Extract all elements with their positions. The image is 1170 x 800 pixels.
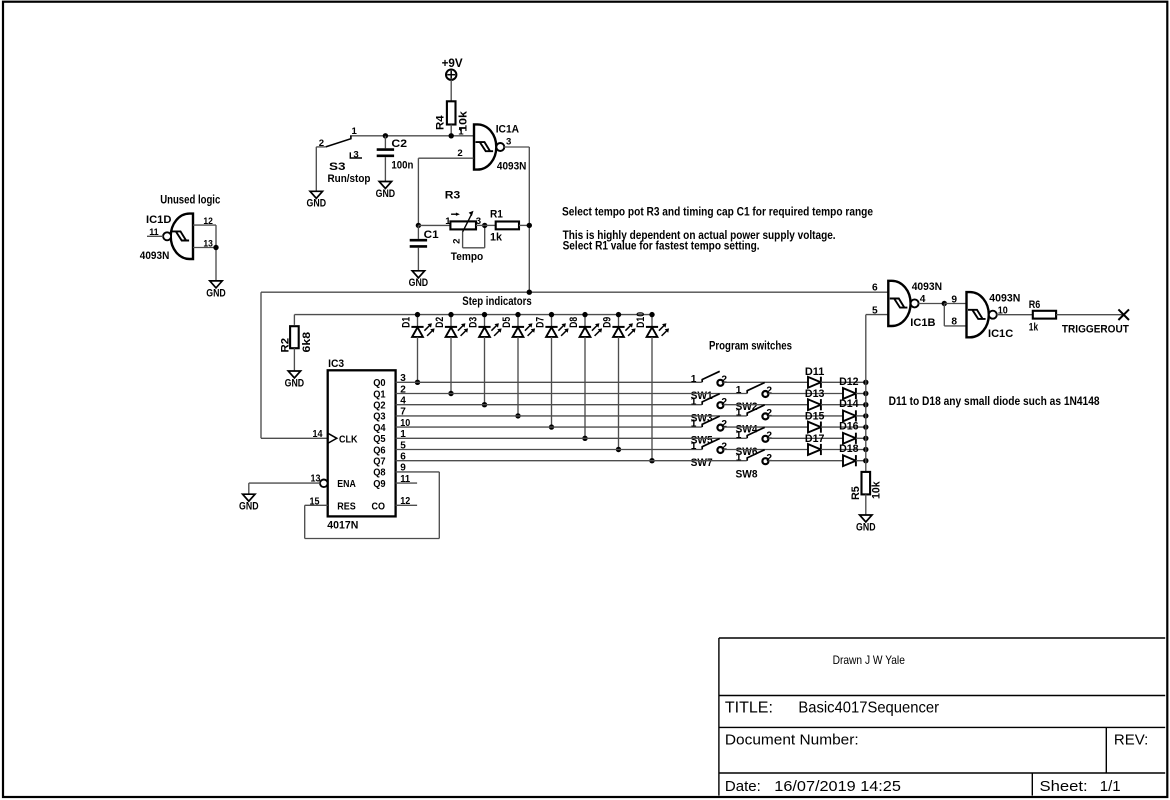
node junction R4/main: [449, 133, 454, 138]
LED D9: [618, 315, 620, 327]
diode D13: [808, 399, 821, 410]
svg-text:D18: D18: [839, 443, 859, 455]
wire: [418, 224, 450, 226]
wire IC1A pin2: [418, 157, 473, 159]
wire Q0 row: [396, 381, 702, 383]
svg-text:IC1D: IC1D: [146, 214, 171, 226]
switch SW3: [702, 394, 720, 405]
svg-text:D3: D3: [468, 317, 480, 328]
svg-text:SW7: SW7: [691, 457, 713, 469]
svg-text:Select R1 value for fastest te: Select R1 value for fastest tempo settin…: [563, 239, 760, 253]
pin ENA bubble: [320, 480, 328, 488]
ground: [412, 271, 424, 278]
wire Q3 row: [396, 415, 747, 417]
svg-text:3: 3: [506, 137, 511, 148]
svg-text:Q1: Q1: [373, 388, 386, 400]
wire Q4 row: [396, 426, 702, 428]
svg-text:IC1C: IC1C: [988, 328, 1013, 340]
svg-text:Unused logic: Unused logic: [160, 193, 220, 207]
capacitor C2: [377, 148, 394, 151]
wire: [821, 381, 866, 383]
wire: [723, 381, 808, 383]
switch SW6: [747, 427, 765, 438]
svg-text:Step indicators: Step indicators: [462, 294, 532, 308]
wire: [450, 125, 452, 136]
switch SW4: [747, 405, 765, 416]
svg-text:Date:: Date:: [725, 778, 761, 795]
no-connect X TRIGGEROUT: [1118, 309, 1129, 320]
svg-text:2: 2: [452, 239, 463, 244]
node junction Q2: [482, 402, 487, 407]
wire Q2 row: [396, 404, 702, 406]
resistor R5 10k: [862, 472, 871, 495]
switch SW1: [702, 371, 720, 382]
resistor R4: [447, 101, 456, 124]
svg-text:GND: GND: [376, 188, 396, 200]
svg-text:1: 1: [691, 441, 697, 452]
node junction bus: [549, 312, 554, 317]
svg-text:D7: D7: [535, 317, 547, 328]
svg-text:9: 9: [951, 294, 957, 305]
svg-text:Q6: Q6: [373, 444, 386, 456]
node junction diode bus: [863, 424, 868, 429]
svg-text:1: 1: [736, 452, 742, 463]
svg-text:2: 2: [721, 419, 727, 430]
wire: [821, 449, 866, 451]
wire: [417, 248, 419, 271]
svg-text:GND: GND: [409, 277, 429, 289]
svg-text:2: 2: [766, 386, 772, 397]
svg-text:Q8: Q8: [373, 467, 386, 479]
svg-text:Basic4017Sequencer: Basic4017Sequencer: [798, 700, 939, 717]
wire: [384, 157, 386, 181]
svg-text:4017N: 4017N: [327, 520, 358, 532]
switch SW8: [747, 450, 765, 461]
ground: [310, 191, 322, 198]
svg-text:4093N: 4093N: [497, 160, 527, 172]
switch SW7: [702, 439, 720, 450]
wire to CLK: [261, 437, 328, 439]
svg-text:+9V: +9V: [442, 56, 463, 70]
wire Q9 stub: [396, 482, 418, 484]
svg-text:Drawn J W Yale: Drawn J W Yale: [833, 653, 906, 667]
svg-text:1: 1: [736, 430, 742, 441]
svg-text:Q7: Q7: [373, 456, 386, 468]
node junction C1/R3: [416, 223, 421, 228]
wire led bus: [294, 314, 652, 316]
svg-text:D15: D15: [805, 411, 825, 423]
wire Q6 row: [396, 449, 702, 451]
node junction Q7: [649, 458, 654, 463]
svg-text:8: 8: [951, 317, 957, 328]
svg-text:2: 2: [766, 408, 772, 419]
svg-text:D14: D14: [839, 398, 859, 410]
node junction C2/main: [383, 133, 388, 138]
svg-text:D12: D12: [839, 376, 859, 388]
svg-text:Run/stop: Run/stop: [328, 173, 371, 185]
svg-text:D5: D5: [501, 317, 513, 328]
wire: [316, 146, 325, 148]
svg-text:1: 1: [736, 385, 742, 396]
svg-text:CLK: CLK: [339, 433, 358, 445]
svg-text:2: 2: [721, 442, 727, 453]
wire: [723, 404, 808, 406]
svg-text:D13: D13: [805, 388, 825, 400]
ground: [860, 515, 872, 522]
node junction bus: [616, 312, 621, 317]
node junction Q6: [616, 447, 621, 452]
wire: [260, 292, 262, 438]
svg-text:1: 1: [691, 396, 697, 407]
wire: [856, 415, 866, 417]
wire: [315, 147, 317, 191]
wire: [519, 224, 529, 226]
LED D1: [417, 315, 419, 327]
wire: [248, 483, 250, 494]
diode D15: [808, 422, 821, 433]
svg-text:4093N: 4093N: [989, 292, 1020, 304]
svg-text:R5: R5: [850, 486, 862, 500]
capacitor C1: [410, 239, 427, 242]
LED D5: [517, 315, 519, 327]
wire: [856, 393, 866, 395]
svg-text:2: 2: [457, 148, 462, 159]
wire: [450, 80, 452, 102]
svg-text:R3: R3: [445, 189, 460, 201]
svg-text:1: 1: [736, 408, 742, 419]
node junction output/clock: [527, 290, 532, 295]
svg-text:16/07/2019 14:25: 16/07/2019 14:25: [774, 778, 901, 795]
resistor R6 1k: [1033, 311, 1056, 319]
svg-text:RES: RES: [337, 500, 356, 512]
potentiometer R3 Tempo: [450, 221, 476, 229]
wire IC1D pin13: [193, 247, 216, 249]
IC U3 4017N box: [328, 370, 396, 516]
svg-text:REV:: REV:: [1114, 731, 1148, 748]
wire: [528, 147, 530, 292]
LED D3: [484, 315, 486, 327]
svg-text:1: 1: [458, 127, 464, 138]
op-amp gate IC1D 4093N (mirrored): [171, 214, 193, 259]
wire: [293, 348, 295, 371]
wire: [768, 437, 843, 439]
node junction R1/output: [527, 223, 532, 228]
svg-text:D16: D16: [839, 421, 859, 433]
node junction diode bus: [863, 391, 868, 396]
wire: [350, 135, 474, 137]
diode D17: [808, 444, 821, 455]
ground: [210, 281, 222, 288]
node junction pins 12/13: [213, 245, 218, 250]
svg-text:D11 to D18 any small diode suc: D11 to D18 any small diode such as 1N414…: [889, 394, 1100, 408]
wire: [1056, 314, 1124, 316]
svg-text:2: 2: [721, 374, 727, 385]
wire: [417, 225, 419, 239]
svg-text:2: 2: [766, 453, 772, 464]
node junction diode bus: [863, 413, 868, 418]
svg-text:4093N: 4093N: [912, 281, 942, 293]
node junction bus: [415, 312, 420, 317]
resistor R2 6k8: [293, 315, 295, 325]
node junction Q3: [515, 413, 520, 418]
diode D18: [843, 455, 856, 466]
node junction diode bus: [863, 447, 868, 452]
diode D11: [808, 377, 821, 388]
wire: [768, 460, 843, 462]
svg-text:1: 1: [445, 216, 451, 227]
svg-text:D17: D17: [805, 433, 825, 445]
svg-text:14: 14: [313, 429, 323, 440]
wire: [856, 437, 866, 439]
node junction R3.3/wiper: [482, 223, 487, 228]
wire clock net: [261, 291, 888, 293]
wire IC1D pin11: [147, 235, 163, 237]
svg-text:IC3: IC3: [328, 358, 344, 370]
node junction bus: [482, 312, 487, 317]
svg-text:D11: D11: [805, 366, 825, 378]
svg-text:1k: 1k: [490, 231, 503, 243]
svg-text:1k: 1k: [1029, 322, 1039, 334]
node junction diode bus: [863, 458, 868, 463]
svg-text:1: 1: [352, 126, 358, 137]
svg-text:IC1A: IC1A: [496, 124, 519, 136]
wire IC1A output: [504, 146, 529, 148]
wire IC1B pin5: [866, 314, 888, 316]
svg-text:D9: D9: [602, 317, 614, 328]
wire ENA: [249, 482, 321, 484]
svg-text:D1: D1: [401, 317, 413, 328]
wire: [476, 224, 485, 226]
svg-text:ENA: ENA: [337, 478, 356, 490]
wire: [768, 415, 843, 417]
wire Q5 row: [396, 437, 747, 439]
+9V supply symbol: [446, 70, 456, 80]
svg-text:C1: C1: [424, 229, 439, 241]
svg-text:GND: GND: [856, 521, 876, 533]
svg-text:R2: R2: [279, 338, 291, 353]
ground: [243, 494, 255, 501]
node junction diode bus: [863, 380, 868, 385]
svg-text:100n: 100n: [391, 160, 413, 172]
svg-text:R6: R6: [1029, 299, 1041, 311]
wire: [821, 426, 866, 428]
switch SW5: [702, 416, 720, 427]
node junction bus: [649, 312, 654, 317]
wire: [417, 158, 419, 225]
wire: [821, 404, 866, 406]
node junction bus: [448, 312, 453, 317]
svg-text:Document Number:: Document Number:: [725, 731, 859, 748]
node junction Q0: [415, 380, 420, 385]
node junction: [942, 301, 947, 306]
svg-text:2: 2: [721, 397, 727, 408]
LED D10: [651, 315, 653, 327]
svg-text:GND: GND: [206, 287, 226, 299]
op-amp gate IC1A 4093N: [474, 124, 496, 169]
node junction diode bus: [863, 402, 868, 407]
switch S3: [326, 136, 351, 147]
svg-text:Tempo: Tempo: [451, 251, 484, 263]
wire CO stub: [396, 504, 418, 506]
wire to pin9: [944, 303, 966, 305]
wire Q1 row: [396, 393, 747, 395]
wire IC1B out: [918, 303, 944, 305]
resistor R1: [496, 222, 519, 230]
svg-text:Q3: Q3: [373, 411, 386, 423]
title block frame: [719, 638, 1165, 796]
switch SW2: [747, 383, 765, 394]
svg-text:Select tempo pot R3 and timing: Select tempo pot R3 and timing cap C1 fo…: [562, 205, 873, 219]
wire to pin8: [943, 304, 945, 326]
svg-text:Q4: Q4: [373, 422, 386, 434]
svg-text:S3: S3: [329, 161, 346, 173]
svg-text:GND: GND: [239, 501, 259, 513]
wire: [384, 136, 386, 149]
diode D16: [843, 433, 856, 444]
svg-text:4093N: 4093N: [140, 250, 170, 262]
svg-text:3: 3: [353, 150, 358, 161]
node junction bus: [515, 312, 520, 317]
svg-text:1/1: 1/1: [1100, 778, 1121, 795]
op-amp gate IC1B 4093N: [888, 281, 910, 326]
svg-text:2: 2: [766, 430, 772, 441]
ground: [288, 371, 300, 378]
svg-text:1: 1: [691, 419, 697, 430]
svg-text:Q0: Q0: [373, 377, 386, 389]
svg-text:D10: D10: [635, 312, 647, 328]
svg-text:TITLE:: TITLE:: [725, 700, 773, 717]
svg-text:10k: 10k: [871, 481, 883, 499]
diode D12: [843, 388, 856, 399]
LED D7: [551, 315, 553, 327]
wire pot wiper loop: [462, 232, 464, 248]
node junction bus: [582, 312, 587, 317]
wire Q7 row: [396, 460, 747, 462]
svg-text:5: 5: [872, 305, 878, 316]
svg-text:Q9: Q9: [373, 478, 386, 490]
ground: [379, 182, 391, 189]
svg-text:Sheet:: Sheet:: [1040, 778, 1088, 795]
svg-text:C2: C2: [391, 138, 407, 150]
wire IC1C out: [997, 314, 1033, 316]
svg-text:1: 1: [691, 374, 697, 385]
wire: [215, 225, 217, 281]
svg-text:GND: GND: [285, 377, 305, 389]
svg-text:R4: R4: [435, 114, 447, 130]
wire: [723, 426, 808, 428]
wire diode bus: [865, 315, 867, 472]
svg-text:D8: D8: [568, 317, 580, 328]
node junction Q5: [582, 436, 587, 441]
node junction Q1: [448, 391, 453, 396]
svg-text:TRIGGEROUT: TRIGGEROUT: [1062, 323, 1129, 335]
svg-text:Program switches: Program switches: [709, 338, 792, 352]
node junction Q4: [549, 424, 554, 429]
svg-text:R1: R1: [490, 209, 503, 221]
svg-text:D2: D2: [434, 317, 446, 328]
node junction diode bus: [863, 436, 868, 441]
svg-text:GND: GND: [307, 198, 327, 210]
diode D14: [843, 411, 856, 422]
svg-text:IC1B: IC1B: [910, 317, 935, 329]
wire IC1D pin12: [193, 224, 216, 226]
svg-text:6: 6: [872, 283, 878, 294]
wire: [768, 393, 843, 395]
svg-text:6k8: 6k8: [301, 332, 313, 353]
svg-text:CO: CO: [372, 500, 386, 512]
svg-text:Q2: Q2: [373, 400, 386, 412]
op-amp gate IC1C 4093N: [967, 292, 989, 337]
svg-text:SW8: SW8: [736, 468, 758, 480]
svg-text:Q5: Q5: [373, 433, 386, 445]
wire: [723, 449, 808, 451]
LED D8: [584, 315, 586, 327]
LED D2: [450, 315, 452, 327]
wire: [865, 494, 867, 515]
wire RES loop: [305, 504, 328, 506]
wire: [856, 460, 866, 462]
